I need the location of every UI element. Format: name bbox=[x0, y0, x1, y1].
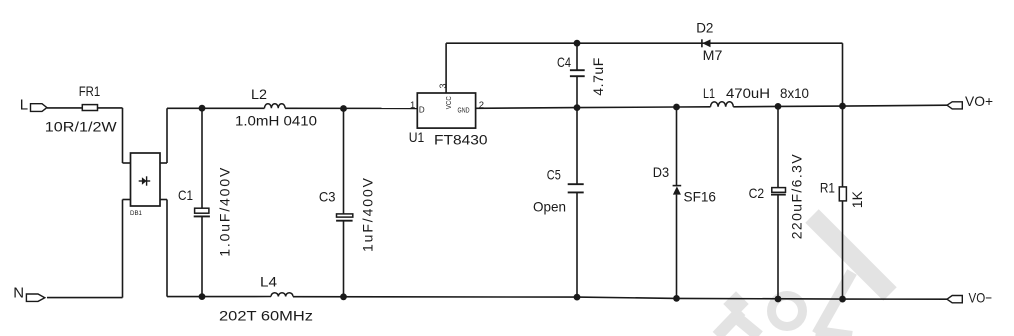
svg-text:C1: C1 bbox=[178, 187, 193, 203]
svg-text:C3: C3 bbox=[319, 189, 336, 205]
svg-text:GND: GND bbox=[458, 105, 470, 114]
svg-text:DB1: DB1 bbox=[130, 210, 142, 217]
svg-text:2: 2 bbox=[479, 100, 484, 111]
svg-text:L2: L2 bbox=[251, 86, 267, 102]
svg-text:L: L bbox=[20, 97, 28, 114]
svg-text:10R/1/2W: 10R/1/2W bbox=[45, 119, 118, 135]
svg-text:VO−: VO− bbox=[969, 289, 993, 305]
svg-text:C2: C2 bbox=[749, 185, 765, 201]
svg-text:L1: L1 bbox=[703, 85, 715, 101]
svg-text:R1: R1 bbox=[820, 180, 835, 196]
svg-text:D3: D3 bbox=[653, 164, 670, 180]
svg-text:N: N bbox=[13, 285, 24, 302]
svg-text:U1: U1 bbox=[409, 129, 425, 145]
svg-text:M7: M7 bbox=[703, 47, 723, 63]
svg-text:3: 3 bbox=[438, 83, 448, 88]
svg-text:8x10: 8x10 bbox=[780, 85, 809, 101]
svg-text:1.0mH 0410: 1.0mH 0410 bbox=[235, 113, 317, 129]
svg-text:FT8430: FT8430 bbox=[434, 132, 488, 148]
svg-text:4.7uF: 4.7uF bbox=[590, 58, 606, 96]
svg-text:470uH: 470uH bbox=[726, 85, 770, 101]
svg-text:L4: L4 bbox=[260, 274, 277, 290]
svg-text:FR1: FR1 bbox=[79, 83, 101, 99]
svg-text:220uF/6.3V: 220uF/6.3V bbox=[789, 154, 805, 240]
svg-text:D2: D2 bbox=[696, 19, 713, 35]
svg-text:202T 60MHz: 202T 60MHz bbox=[219, 308, 313, 324]
svg-text:D: D bbox=[419, 106, 425, 115]
svg-text:1: 1 bbox=[410, 100, 415, 111]
svg-text:C5: C5 bbox=[547, 167, 561, 183]
svg-text:C4: C4 bbox=[557, 54, 571, 70]
svg-text:1K: 1K bbox=[849, 190, 865, 208]
svg-text:1.0uF/400V: 1.0uF/400V bbox=[217, 167, 233, 257]
svg-text:Open: Open bbox=[533, 199, 566, 215]
svg-text:SF16: SF16 bbox=[684, 188, 717, 204]
svg-text:VO+: VO+ bbox=[965, 93, 993, 109]
svg-text:VCC: VCC bbox=[444, 96, 453, 109]
